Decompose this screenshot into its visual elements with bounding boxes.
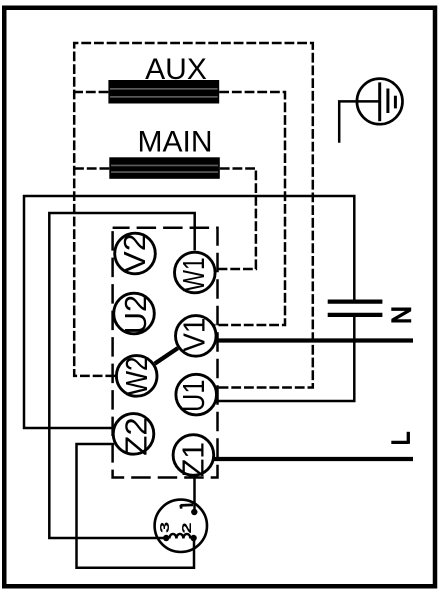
svg-text:V1: V1 [176, 318, 211, 352]
svg-text:Z2: Z2 [119, 417, 154, 456]
svg-text:3: 3 [158, 522, 173, 533]
switch contact dot 2 [190, 535, 196, 541]
terminal Z2 [113, 414, 154, 456]
wire W1 top to switch terminal 3 [49, 213, 194, 538]
wire dashed MAIN left stub [74, 167, 109, 170]
wire U1 to capacitor bottom [217, 315, 354, 401]
wire N supply (thick) [216, 338, 413, 342]
winding AUX [108, 80, 219, 104]
svg-text:V2: V2 [117, 233, 152, 273]
terminal Z1 [173, 435, 214, 477]
svg-text:U2: U2 [118, 295, 153, 335]
winding MAIN [109, 157, 220, 179]
earth terminal [357, 79, 403, 125]
wire dashed AUX right to V1 [215, 92, 286, 325]
svg-text:Z1: Z1 [176, 442, 211, 477]
terminal V1 [176, 316, 217, 357]
switch contact dot 1 [191, 509, 197, 515]
capacitor C [328, 302, 383, 315]
link bar W2-V1 [155, 348, 178, 364]
terminal box dashed outline [113, 228, 218, 478]
terminal W2 [116, 356, 157, 397]
switch heater squiggle 2-3 [169, 534, 190, 539]
svg-text:W2: W2 [119, 357, 154, 396]
wire Z2 to capacitor top via top bus [24, 196, 354, 428]
wire Z1 to switch terminal 1 [193, 477, 196, 512]
switch (starting/thermal protector) [155, 500, 207, 552]
terminal U1 [176, 374, 217, 415]
wire L supply (thick) [214, 457, 413, 461]
wire earth lead [339, 101, 380, 142]
terminal W1 [175, 252, 216, 293]
svg-text:W1: W1 [176, 257, 211, 291]
wire dashed AUX left stub [74, 91, 108, 94]
net label N (rotated) [391, 309, 411, 321]
svg-text:MAIN: MAIN [138, 126, 213, 159]
terminal U2 [114, 293, 155, 334]
switch contact dot 3 [163, 535, 169, 541]
svg-text:AUX: AUX [145, 53, 207, 86]
terminal V2 [115, 233, 156, 274]
svg-text:U1: U1 [176, 380, 211, 413]
svg-text:2: 2 [180, 522, 195, 533]
pin label 1 (rotated, drawn) [181, 505, 194, 509]
net label L (rotated) [391, 432, 408, 444]
wire dashed bus (AUX/MAIN left terminals to W2 and over top to U1) [74, 43, 313, 388]
wire Z2 to switch terminal 2 [77, 444, 195, 568]
wire dashed MAIN right to W1 [216, 169, 256, 270]
